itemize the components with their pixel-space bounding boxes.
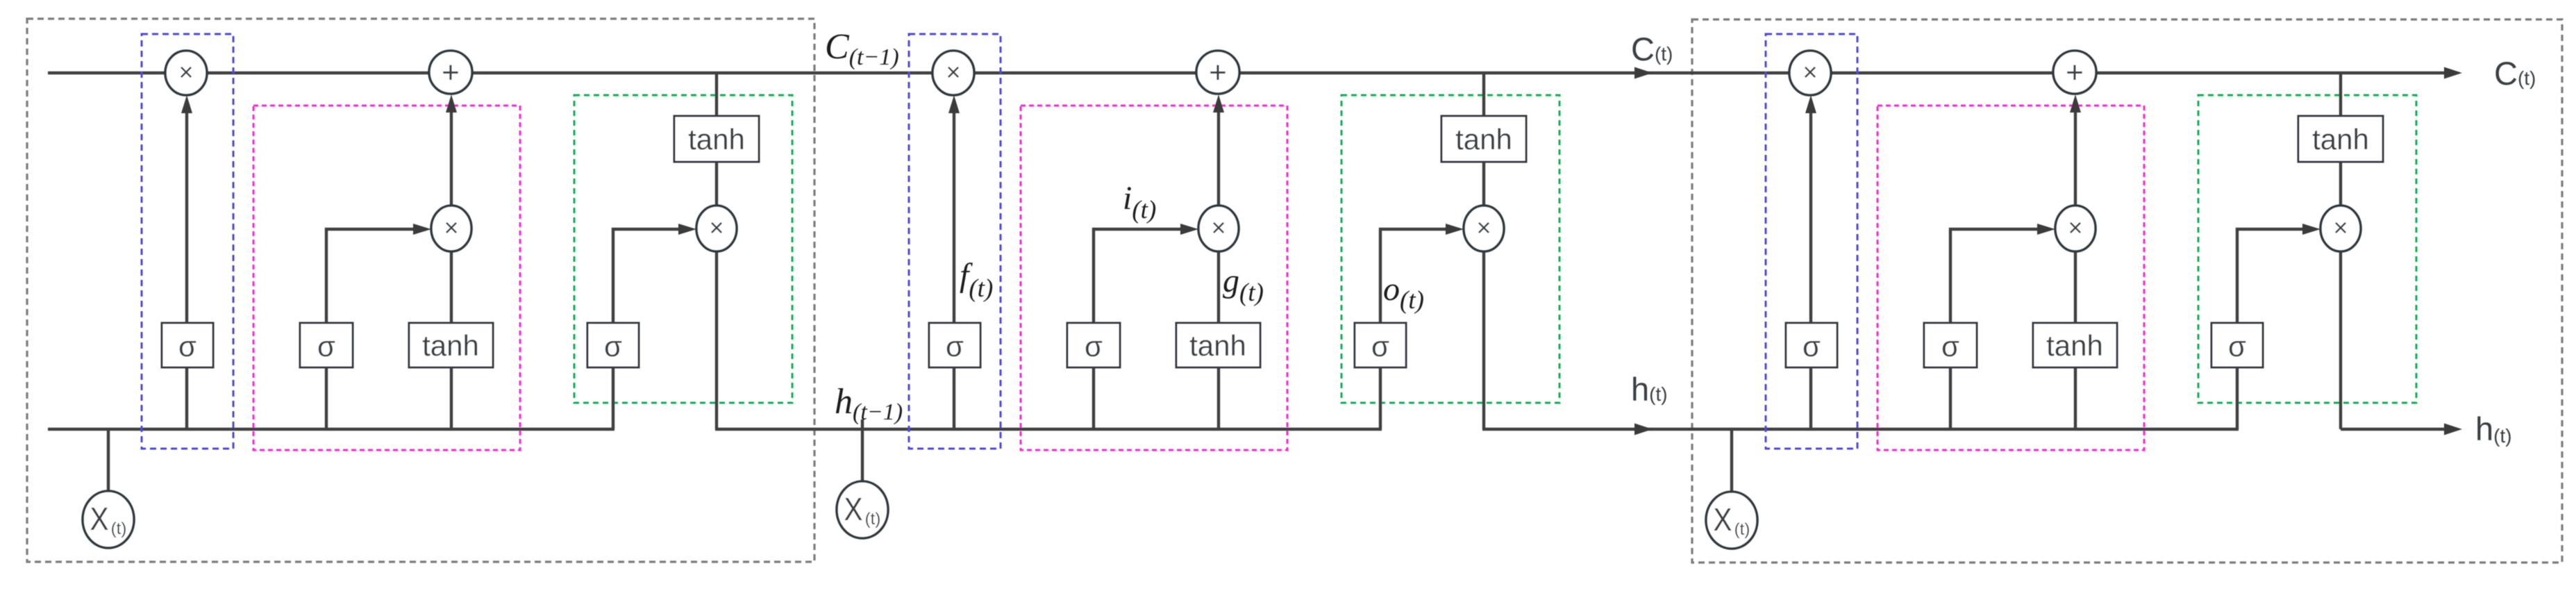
svg-text:tanh: tanh: [688, 123, 745, 156]
svg-text:σ: σ: [317, 330, 335, 363]
svg-text:tanh: tanh: [422, 329, 479, 362]
svg-text:σ: σ: [604, 330, 622, 363]
svg-text:(t): (t): [111, 519, 127, 538]
svg-text:×: ×: [178, 58, 193, 86]
svg-text:σ: σ: [178, 330, 196, 363]
svg-text:+: +: [442, 56, 460, 90]
svg-text:X: X: [90, 501, 109, 537]
svg-text:×: ×: [709, 213, 724, 242]
svg-text:×: ×: [444, 213, 458, 242]
